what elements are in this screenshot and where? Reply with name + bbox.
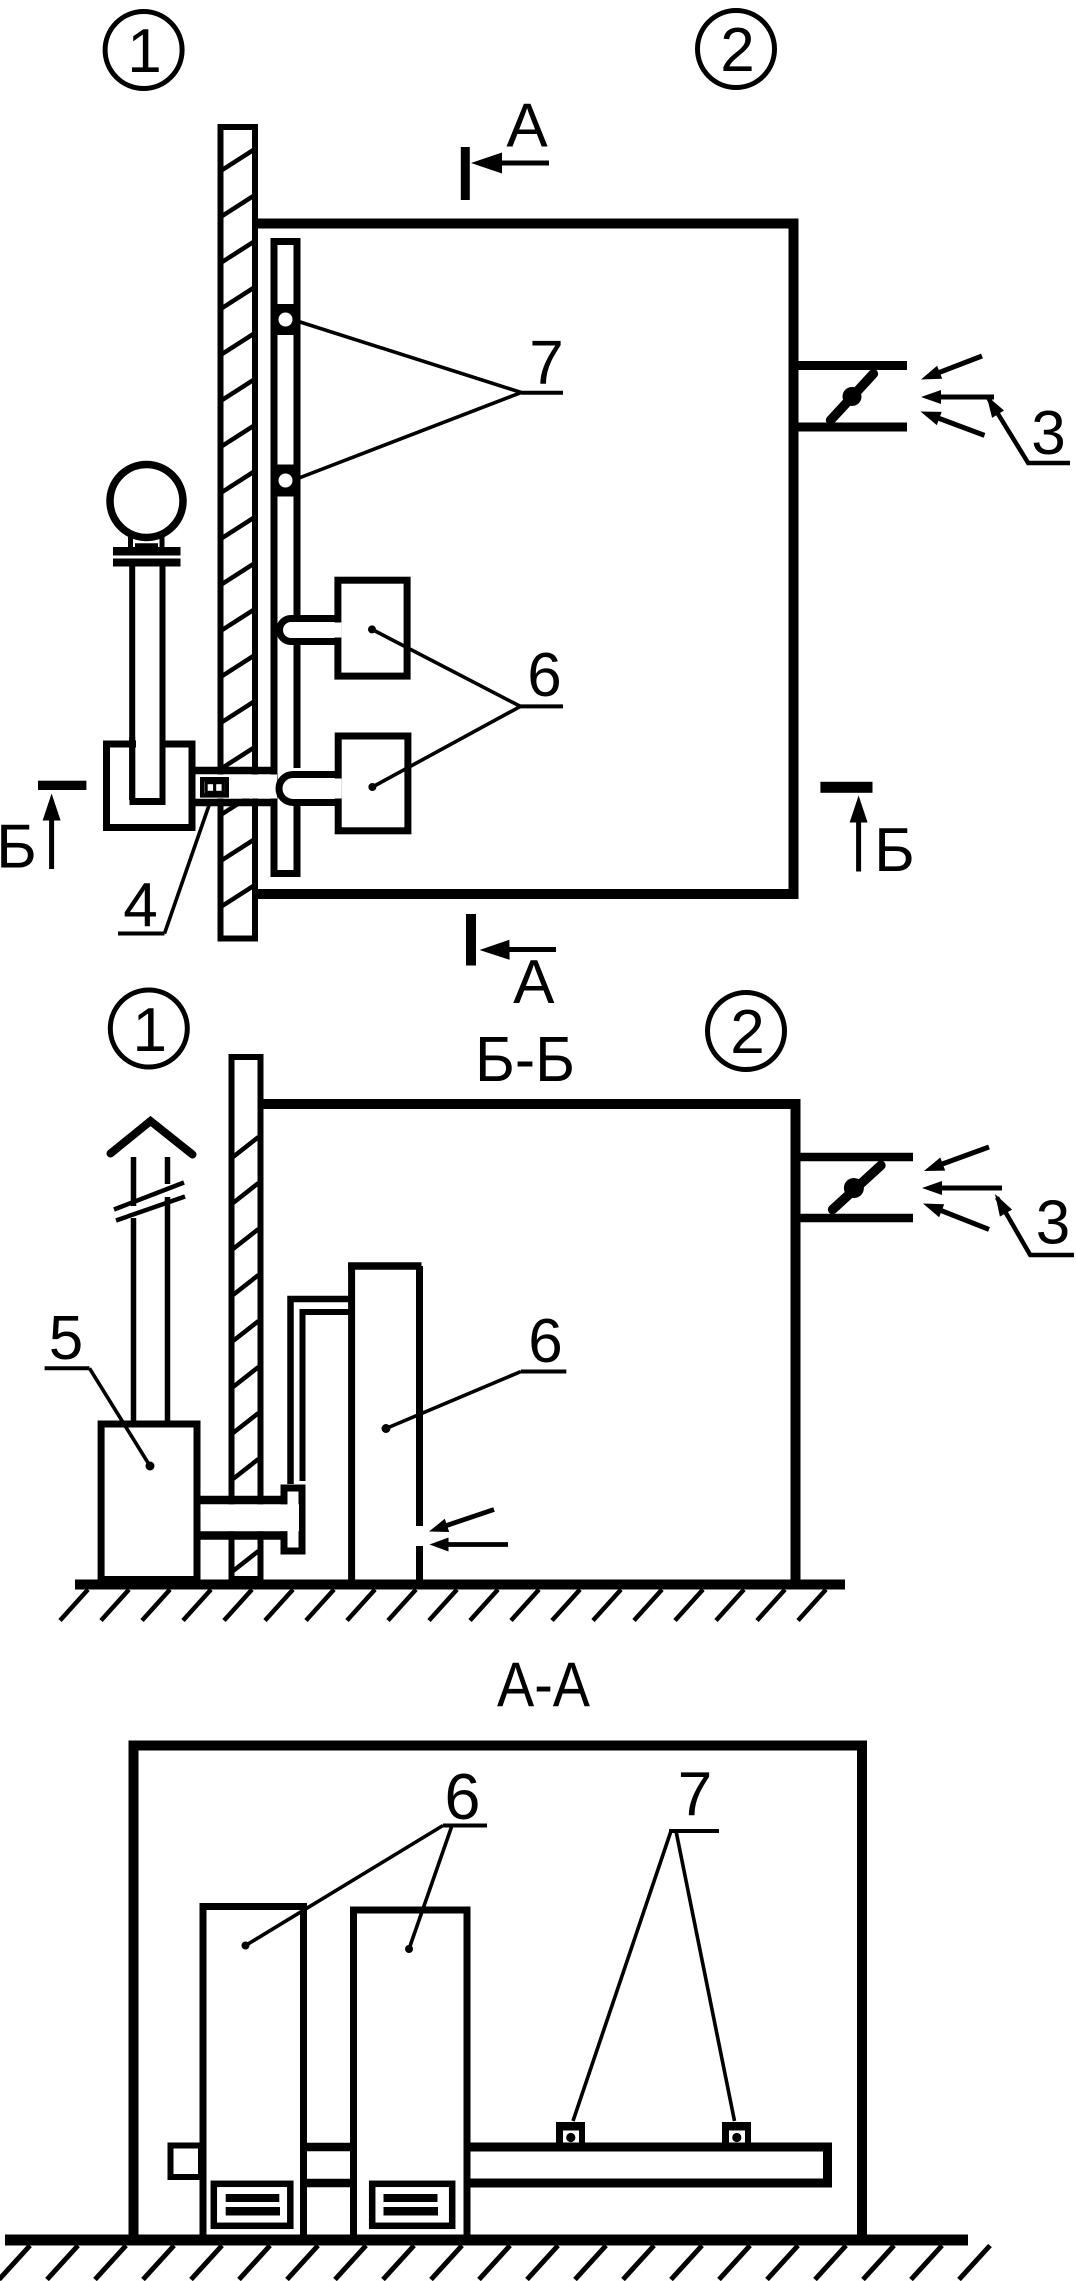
label 3 leader (section Б-Б) <box>995 1194 1074 1255</box>
view marker circle 2 (section Б-Б) <box>708 993 785 1070</box>
box 6 left (section А-А) <box>203 1907 304 2237</box>
svg-text:6: 6 <box>444 1760 480 1833</box>
deflector ball on stand (top view) <box>110 465 183 567</box>
svg-text:7: 7 <box>678 1760 712 1829</box>
label 6 leaders (section А-А) <box>242 1826 488 1954</box>
airflow arrows at opening (top view) <box>921 356 995 435</box>
chamber box (section Б-Б) <box>263 1104 796 1589</box>
riser pipe to box 6 (section Б-Б) <box>291 1299 351 1484</box>
elbow connector (section Б-Б) <box>284 1488 302 1551</box>
section mark Б left <box>0 781 86 882</box>
rail between boxes (section А-А) <box>304 2147 354 2183</box>
stand pipe (top view) <box>130 566 166 802</box>
inlet opening 3 (top view) <box>792 366 907 428</box>
svg-text:Б-Б: Б-Б <box>475 1023 575 1095</box>
svg-text:3: 3 <box>1036 1189 1070 1258</box>
label 6 leaders (top) <box>372 629 563 787</box>
svg-text:А: А <box>513 948 555 1017</box>
box 6 (section Б-Б) <box>348 1263 422 1581</box>
svg-text:4: 4 <box>123 871 157 940</box>
svg-text:2: 2 <box>720 16 754 85</box>
vertical rail duct (top view) <box>271 238 301 877</box>
svg-text:А: А <box>506 92 548 161</box>
box 5 (section Б-Б) <box>101 1424 197 1580</box>
duct from box 5 through wall (section Б-Б) <box>201 1500 300 1536</box>
airflow arrows into box 6 (section Б-Б) <box>429 1510 508 1552</box>
chamber box (top view) <box>254 224 794 895</box>
label 3 leader (top) <box>987 396 1071 464</box>
bearing item 4 <box>202 779 226 795</box>
svg-text:1: 1 <box>127 17 161 86</box>
view marker circle 1 (section Б-Б) <box>110 990 187 1067</box>
svg-text:1: 1 <box>133 996 167 1065</box>
box 6 right (section А-А) <box>354 1910 468 2236</box>
label 7 leaders (top) <box>297 321 563 478</box>
label 5 leader <box>45 1368 150 1466</box>
ground line (section Б-Б) <box>60 1585 845 1621</box>
svg-text:7: 7 <box>529 329 563 398</box>
wall (top view, hatched) <box>219 127 257 939</box>
airflow arrows at opening (section Б-Б) <box>922 1147 1002 1229</box>
section mark A (top) <box>465 92 549 201</box>
svg-text:6: 6 <box>528 1307 562 1376</box>
damper (top view) <box>831 374 874 421</box>
svg-text:5: 5 <box>49 1304 83 1373</box>
svg-text:2: 2 <box>730 998 764 1067</box>
branch duct to lower box 6 (top view) <box>279 775 339 803</box>
rail right of boxes (section А-А) <box>467 2147 828 2183</box>
exhaust stack roof cap <box>111 1121 193 1155</box>
svg-text:6: 6 <box>527 641 561 710</box>
svg-text:3: 3 <box>1031 399 1065 468</box>
exhaust stack pipe with break symbol <box>114 1157 185 1424</box>
stand pipe through container top <box>132 737 162 800</box>
svg-text:Б: Б <box>0 813 37 882</box>
section mark A (bottom of top view) <box>471 914 556 1017</box>
label 4 leader <box>118 801 211 934</box>
fastener 7 right (section А-А) <box>722 2122 751 2147</box>
label 6 leader (section Б-Б) <box>386 1372 566 1429</box>
chamber box (section А-А) <box>134 1746 863 2241</box>
svg-text:Б: Б <box>874 816 915 885</box>
damper (section Б-Б) <box>833 1165 881 1209</box>
section mark Б right <box>820 782 914 885</box>
ground line (section А-А) <box>0 2240 990 2280</box>
svg-text:А-А: А-А <box>497 1650 590 1720</box>
wall (section Б-Б, hatched) <box>232 1057 261 1579</box>
rail left tab (section А-А) <box>171 2146 202 2178</box>
inlet opening 3 (section Б-Б) <box>800 1157 913 1218</box>
upper box 6 (top view) <box>331 580 407 676</box>
view marker circle 1 (top view) <box>105 12 182 89</box>
fastener 7 upper (top view) <box>271 304 301 335</box>
fastener 7 left (section А-А) <box>556 2122 585 2147</box>
view marker circle 2 (top view) <box>698 11 775 88</box>
grille of right box 6 <box>372 2184 452 2226</box>
label 7 leaders (section А-А) <box>573 1831 735 2121</box>
fastener 7 lower (top view) <box>271 465 301 497</box>
branch duct to upper box 6 (top view) <box>280 619 338 642</box>
container / water seal (top view, item 5) <box>107 736 193 828</box>
through-wall duct (top view) <box>196 771 278 803</box>
lower box 6 (top view) <box>331 736 408 831</box>
grille of left box 6 <box>214 2184 290 2226</box>
